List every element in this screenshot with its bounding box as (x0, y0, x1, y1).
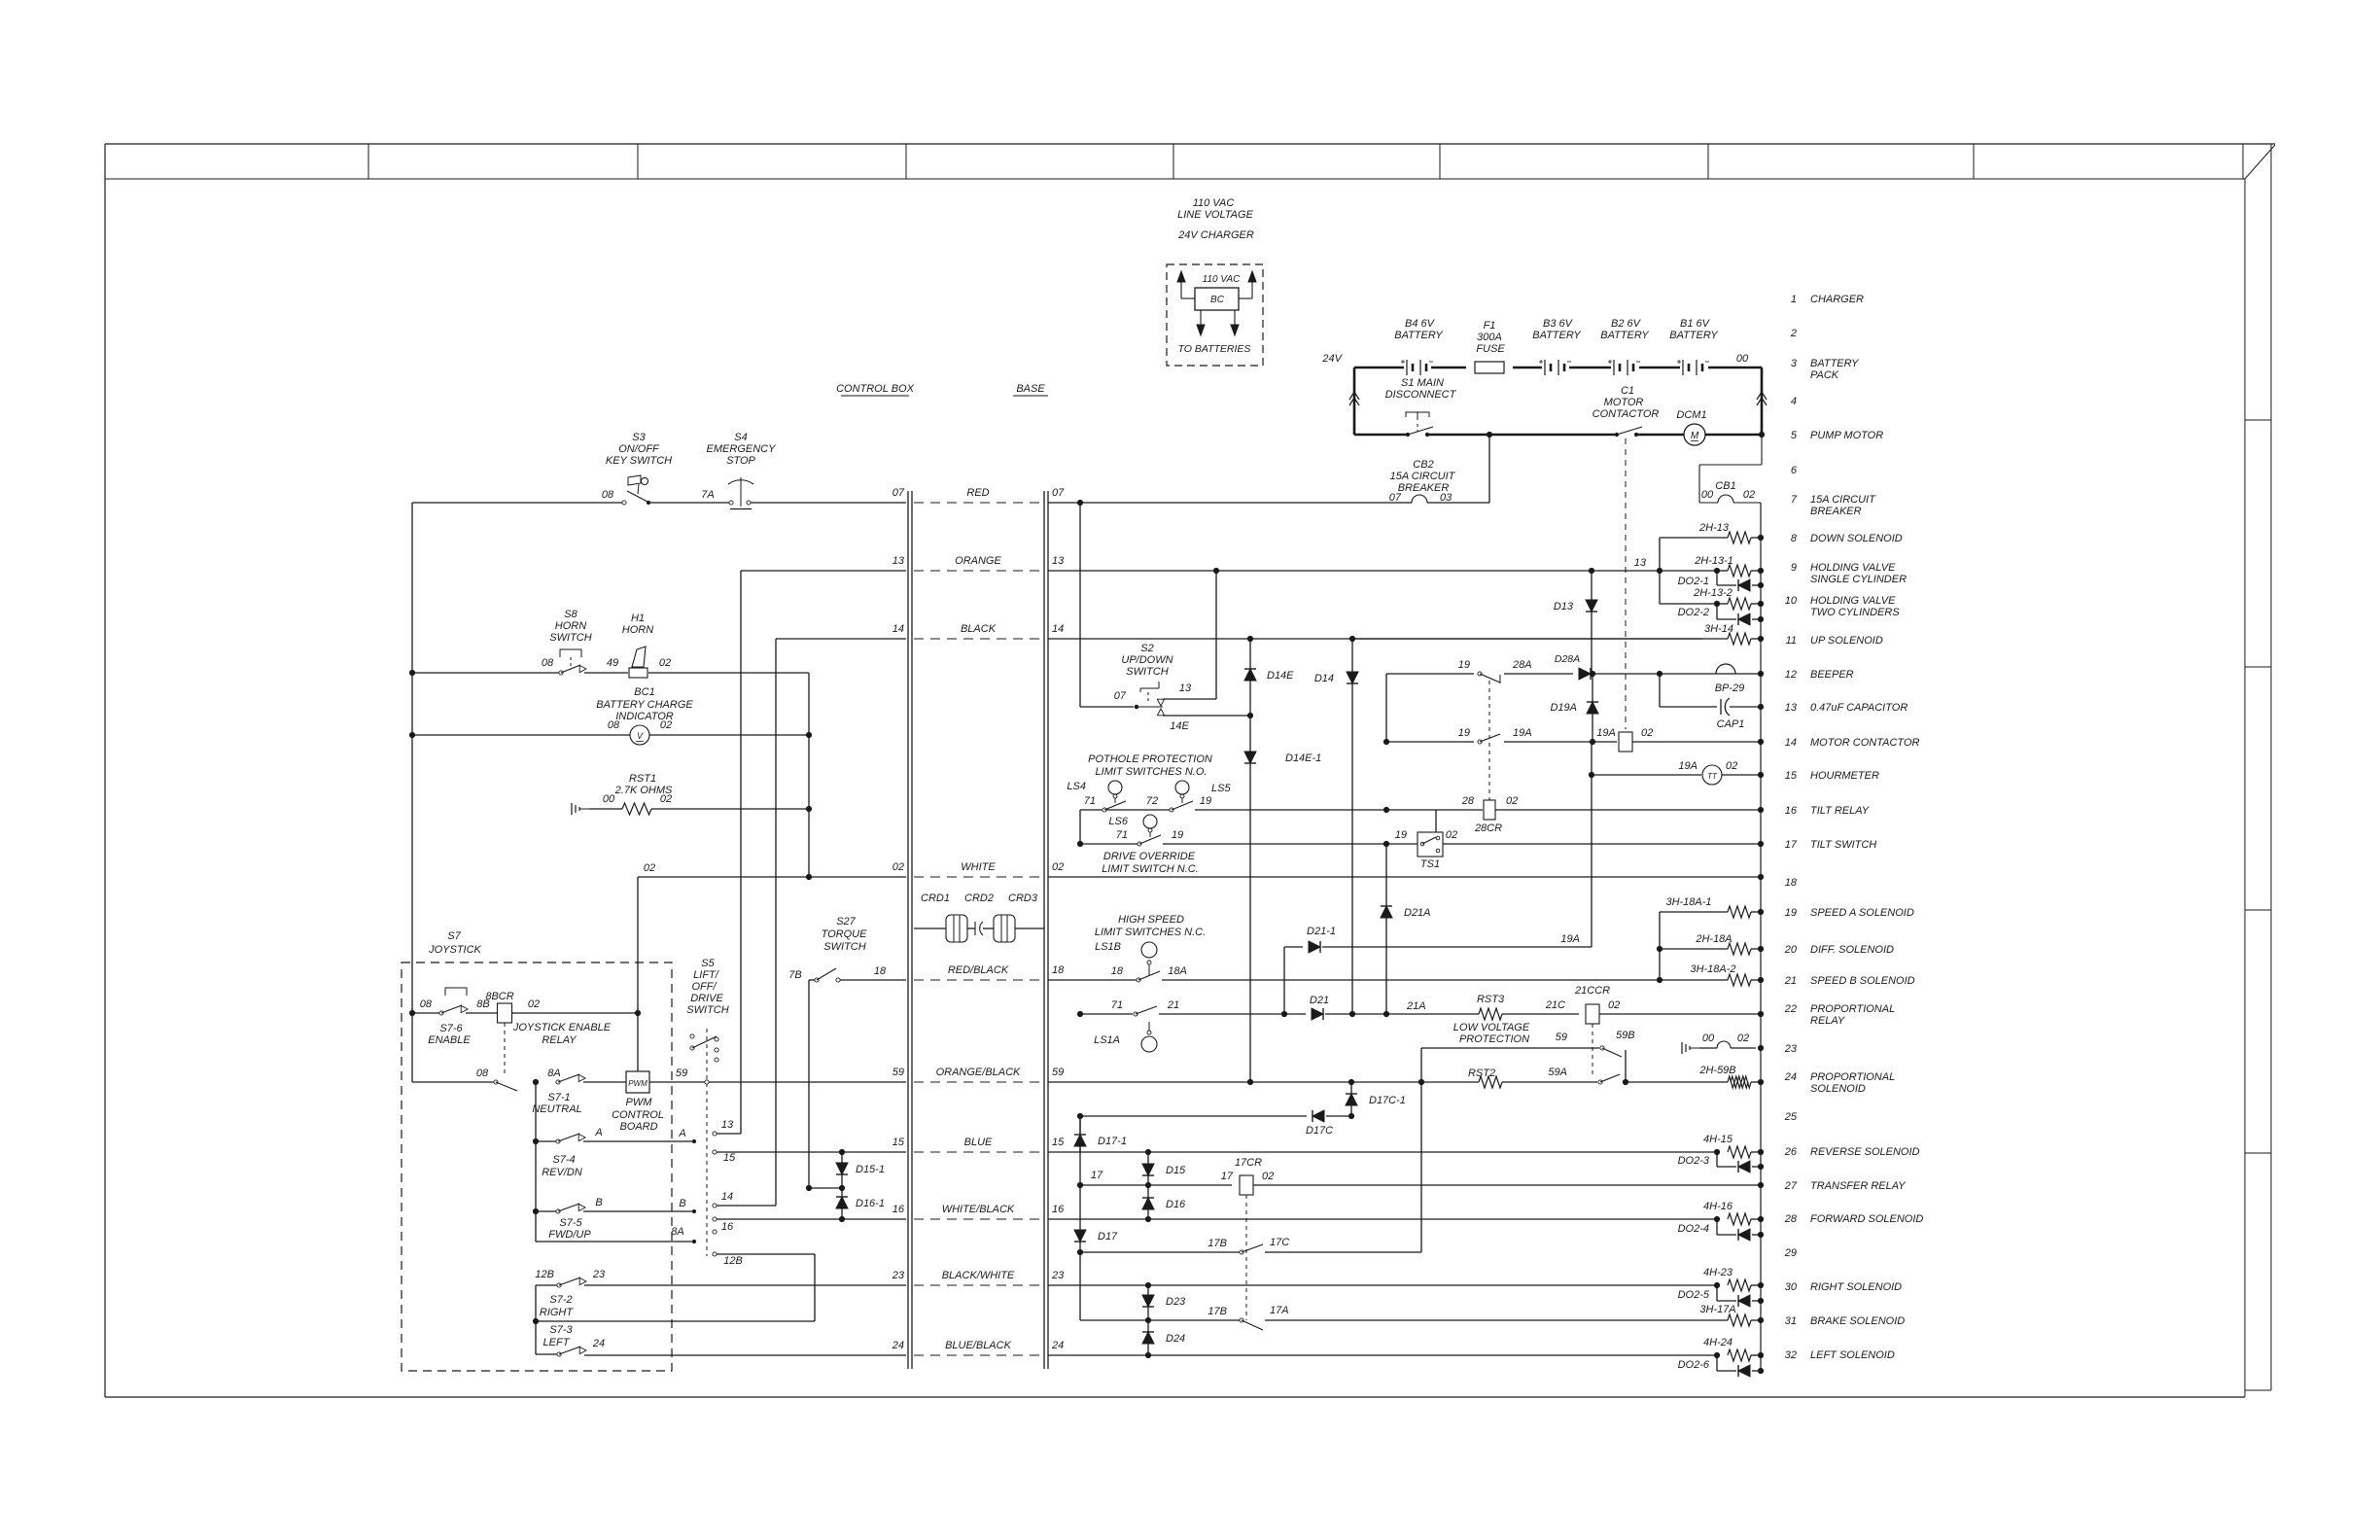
wire 18 left row (809, 980, 906, 1189)
limit switch LS5 (1146, 781, 1232, 812)
svg-text:LIMIT SWITCHES N.C.: LIMIT SWITCHES N.C. (1095, 927, 1206, 938)
svg-text:D17-1: D17-1 (1098, 1136, 1127, 1147)
svg-text:UP SOLENOID: UP SOLENOID (1810, 635, 1883, 647)
svg-text:D19A: D19A (1550, 702, 1577, 714)
svg-text:DOWN SOLENOID: DOWN SOLENOID (1810, 533, 1903, 544)
wire 02 WHITE inter-box dashed segment (892, 861, 1065, 877)
svg-text:11: 11 (1786, 635, 1797, 647)
svg-text:DO2-3: DO2-3 (1678, 1155, 1710, 1167)
svg-text:WHITE: WHITE (961, 861, 996, 873)
svg-text:00: 00 (1701, 489, 1714, 501)
svg-text:LOW VOLTAGE: LOW VOLTAGE (1453, 1022, 1530, 1033)
svg-text:24V: 24V (1321, 353, 1343, 365)
svg-text:13: 13 (1179, 682, 1192, 694)
junction 13 S2 (1213, 568, 1218, 573)
horn H1 (607, 612, 671, 678)
joystick common vertical (535, 1082, 537, 1242)
svg-text:18: 18 (1111, 965, 1124, 977)
svg-text:S8: S8 (564, 609, 577, 620)
low voltage bracket wire 59-59B (1421, 1030, 1635, 1082)
svg-text:PACK: PACK (1810, 369, 1839, 381)
svg-text:DRIVE: DRIVE (690, 993, 723, 1004)
diode D19A (1550, 674, 1598, 742)
svg-text:B: B (679, 1198, 685, 1209)
wire 59 from PWM (649, 1067, 906, 1082)
diode DO2-5 (1678, 1285, 1761, 1307)
svg-text:14: 14 (1785, 737, 1797, 749)
svg-text:BLACK: BLACK (961, 623, 997, 635)
svg-text:25: 25 (1784, 1111, 1798, 1123)
svg-text:B1 6V: B1 6V (1680, 318, 1711, 330)
svg-text:17: 17 (1091, 1170, 1103, 1181)
svg-text:NEUTRAL: NEUTRAL (532, 1103, 581, 1115)
diode DO2-2 (1678, 604, 1761, 625)
junction D21-1 branch (1281, 1011, 1286, 1016)
junction D24 bottom (1145, 1352, 1150, 1357)
svg-text:27: 27 (1784, 1180, 1798, 1192)
diode D14E-1 (1244, 716, 1321, 1082)
resistor 2H-18A (1728, 943, 1761, 955)
dashed link 8BCR to S7-1 (504, 1023, 506, 1075)
svg-text:19: 19 (1458, 659, 1470, 671)
charger block BC (1195, 288, 1239, 310)
svg-text:71: 71 (1116, 829, 1128, 841)
junction 7B drop bottom (806, 1185, 842, 1190)
svg-text:02: 02 (1052, 861, 1064, 873)
svg-text:18A: 18A (1168, 965, 1187, 977)
wire rung 20 diff solenoid (1657, 933, 1732, 952)
S5 contact aux (713, 1230, 717, 1234)
junction LS6 left (1077, 841, 1082, 846)
svg-text:23: 23 (892, 1270, 905, 1281)
svg-text:PWM: PWM (628, 1079, 647, 1088)
junction pothole right (1383, 807, 1388, 812)
svg-text:BATTERY: BATTERY (1600, 330, 1649, 341)
label 110 VAC LINE VOLTAGE (1177, 197, 1254, 221)
svg-text:S7-4: S7-4 (552, 1154, 575, 1166)
svg-text:BRAKE SOLENOID: BRAKE SOLENOID (1810, 1315, 1905, 1327)
wire 14 base side (1048, 638, 1702, 640)
svg-text:21A: 21A (1406, 1000, 1426, 1012)
dashed link 17CR contacts (1245, 1195, 1247, 1320)
svg-text:2H-13-2: 2H-13-2 (1693, 587, 1732, 599)
svg-text:D14E: D14E (1267, 670, 1294, 682)
fuse link 00-02 rung 23 (1699, 1032, 1756, 1048)
svg-text:02: 02 (1506, 795, 1518, 807)
svg-text:M: M (1691, 431, 1699, 441)
svg-text:S7-3: S7-3 (549, 1324, 573, 1336)
svg-text:00: 00 (1702, 1032, 1715, 1044)
svg-text:0.47uF CAPACITOR: 0.47uF CAPACITOR (1810, 702, 1907, 714)
joystick S7 dashed enclosure (402, 962, 672, 1371)
svg-text:00: 00 (603, 793, 615, 805)
svg-text:BP-29: BP-29 (1715, 682, 1745, 694)
junction D14E mid (1247, 713, 1252, 717)
wire 23 left row (584, 1284, 906, 1286)
svg-text:LEFT SOLENOID: LEFT SOLENOID (1810, 1349, 1895, 1361)
wire 16 WHITE/BLACK inter-box dashed segment (892, 1204, 1065, 1219)
svg-text:TT: TT (1707, 772, 1718, 781)
switch 59A contact (1502, 1067, 1620, 1084)
wire 15 BLUE inter-box dashed segment (892, 1137, 1065, 1152)
limit switch LS1B (1095, 941, 1187, 982)
svg-text:S1 MAIN: S1 MAIN (1401, 377, 1444, 389)
wire 07 base side (1048, 502, 1412, 504)
diode D17 (1074, 1185, 1118, 1252)
resistor RST3 (1477, 994, 1505, 1020)
coil C1 19A-02 (1596, 727, 1761, 752)
svg-text:PROPORTIONAL: PROPORTIONAL (1810, 1071, 1895, 1083)
node 02 corner (644, 862, 655, 874)
label 24V CHARGER (1177, 229, 1254, 241)
wire 16 base row (1048, 1218, 1717, 1220)
svg-text:59B: 59B (1616, 1030, 1635, 1041)
wire 18 base row (1048, 979, 1657, 981)
svg-text:TS1: TS1 (1420, 858, 1440, 870)
svg-text:S27: S27 (836, 916, 856, 927)
wire 8A row (536, 1226, 696, 1243)
svg-text:110 VAC: 110 VAC (1203, 274, 1242, 285)
svg-text:16: 16 (1052, 1204, 1065, 1215)
svg-text:SOLENOID: SOLENOID (1810, 1083, 1866, 1095)
svg-text:02: 02 (528, 998, 540, 1010)
arrow up on right battery wire (1757, 392, 1767, 405)
svg-text:LS1A: LS1A (1094, 1034, 1120, 1046)
page border outer frame (105, 144, 2275, 1397)
svg-text:7B: 7B (788, 969, 801, 981)
S5 contact 14 (713, 1191, 776, 1207)
svg-text:RIGHT: RIGHT (540, 1307, 575, 1318)
svg-text:17B: 17B (1207, 1238, 1227, 1249)
wire 18 RED/BLACK inter-box dashed segment (914, 964, 1065, 980)
connector CRD1 (921, 892, 967, 942)
wire 19A corner (1560, 933, 1580, 945)
svg-text:15: 15 (723, 1152, 736, 1164)
svg-text:REVERSE SOLENOID: REVERSE SOLENOID (1810, 1146, 1920, 1158)
wire rung 29 17B-17C (1077, 1082, 1421, 1255)
pwm control board box (612, 1071, 664, 1133)
wire 13 base side (1048, 570, 1657, 572)
svg-text:08: 08 (542, 657, 554, 669)
svg-text:8A: 8A (671, 1226, 683, 1238)
svg-text:10: 10 (1785, 595, 1798, 607)
junction node pump motor right (1759, 432, 1764, 437)
wire rung 14 motor contactor (1383, 739, 1474, 744)
svg-text:PWM: PWM (626, 1097, 653, 1108)
wire S7-6 row (412, 1012, 638, 1014)
svg-text:08: 08 (608, 719, 620, 731)
svg-text:1: 1 (1791, 294, 1797, 305)
svg-text:23: 23 (592, 1269, 606, 1280)
label HIGH SPEED LIMIT SWITCHES N.C. (1095, 914, 1206, 938)
wire rung 16 to bus (1495, 809, 1761, 811)
svg-text:02: 02 (1743, 489, 1755, 501)
svg-text:12B: 12B (535, 1269, 554, 1280)
wire 15 base row (1048, 1151, 1717, 1153)
diode D21A (1381, 844, 1431, 1014)
svg-text:PROTECTION: PROTECTION (1459, 1033, 1529, 1045)
svg-text:BATTERY: BATTERY (1810, 358, 1859, 369)
svg-text:BLUE: BLUE (964, 1137, 993, 1148)
svg-text:LS6: LS6 (1108, 816, 1128, 827)
svg-text:BATTERY: BATTERY (1394, 330, 1443, 341)
svg-text:MOTOR: MOTOR (1604, 397, 1644, 408)
svg-text:4H-16: 4H-16 (1703, 1201, 1733, 1212)
breaker CB2 15A CIRCUIT BREAKER (1389, 435, 1489, 504)
wire S2 to 13 (1163, 571, 1216, 699)
svg-text:UP/DOWN: UP/DOWN (1121, 654, 1172, 666)
wire 12B loop (533, 1252, 815, 1324)
pin 7A (701, 489, 714, 501)
diode D15 (1142, 1152, 1186, 1185)
svg-text:3H-18A-1: 3H-18A-1 (1665, 896, 1711, 908)
svg-text:D14: D14 (1314, 673, 1334, 684)
diode D14 (1314, 639, 1358, 1013)
resistor 3H-14 (1728, 633, 1761, 645)
wire battery pack top (thick) (1354, 367, 1762, 435)
svg-text:19: 19 (1458, 727, 1470, 739)
svg-text:4H-24: 4H-24 (1703, 1337, 1732, 1348)
wire 13 drop vertical (741, 571, 906, 1134)
rung 28 solenoid 4H-16 (1703, 1201, 1761, 1225)
svg-text:72: 72 (1146, 795, 1158, 807)
svg-text:2H-13: 2H-13 (1698, 522, 1730, 534)
wire 07 control box left (412, 502, 906, 504)
label CONTROL BOX (836, 383, 915, 396)
bus junction dots (1758, 535, 1763, 1373)
svg-text:24: 24 (1051, 1340, 1064, 1351)
svg-text:BREAKER: BREAKER (1810, 506, 1862, 517)
wire TS1 to 28CR (1435, 810, 1437, 832)
junction rung 22 left (1077, 1011, 1082, 1016)
svg-text:3H-17A: 3H-17A (1699, 1304, 1735, 1315)
svg-text:BOARD: BOARD (619, 1121, 657, 1133)
svg-text:15A CIRCUIT: 15A CIRCUIT (1390, 471, 1456, 482)
svg-text:V: V (637, 731, 644, 741)
label 110 VAC inside charger (1203, 274, 1242, 285)
wire S2 14E to D14E (1163, 715, 1250, 717)
svg-text:D28A: D28A (1555, 653, 1580, 665)
junction 59 D17C-1 (1348, 1079, 1353, 1084)
svg-text:59: 59 (1052, 1067, 1064, 1078)
svg-text:BEEPER: BEEPER (1810, 669, 1854, 681)
svg-text:02: 02 (644, 862, 655, 874)
svg-text:HOURMETER: HOURMETER (1810, 770, 1879, 782)
svg-text:LS5: LS5 (1211, 783, 1231, 794)
dashed link 28CR contacts (1488, 681, 1490, 800)
svg-text:15: 15 (892, 1137, 905, 1148)
junction D16 path (1145, 1182, 1150, 1187)
svg-text:D16: D16 (1166, 1199, 1186, 1210)
wire pump motor row (thick) (1354, 434, 1762, 437)
svg-text:18: 18 (874, 965, 887, 977)
rung 30 solenoid 4H-23 (1703, 1267, 1761, 1291)
wire horn drop vertical (808, 673, 810, 877)
svg-text:07: 07 (1052, 487, 1065, 499)
svg-text:DISCONNECT: DISCONNECT (1385, 389, 1457, 401)
svg-text:B2 6V: B2 6V (1611, 318, 1642, 330)
diode D16 (1142, 1185, 1186, 1219)
svg-text:13: 13 (1634, 557, 1647, 569)
svg-text:CRD2: CRD2 (964, 892, 994, 904)
svg-text:12: 12 (1785, 669, 1797, 681)
svg-text:OFF/: OFF/ (691, 981, 717, 993)
svg-text:5: 5 (1791, 430, 1798, 441)
svg-text:15: 15 (1785, 770, 1798, 782)
svg-text:D15-1: D15-1 (856, 1164, 885, 1175)
svg-text:S3: S3 (632, 432, 646, 443)
limit switch LS4 (1067, 781, 1126, 812)
svg-text:28A: 28A (1512, 659, 1532, 671)
rung 31 solenoid 3H-17A (1699, 1304, 1761, 1326)
svg-text:HORN: HORN (555, 620, 586, 632)
svg-text:71: 71 (1111, 999, 1123, 1011)
svg-text:8: 8 (1791, 533, 1798, 544)
junction BC1 left (409, 732, 414, 737)
svg-text:S7-6: S7-6 (439, 1023, 463, 1034)
svg-text:02: 02 (659, 657, 671, 669)
wire rung22 to D21 (1159, 1013, 1306, 1015)
ground chassis rung 23 (1682, 1042, 1699, 1054)
junction rung17 mid (1383, 841, 1388, 846)
svg-text:DIFF. SOLENOID: DIFF. SOLENOID (1810, 944, 1894, 956)
svg-text:02: 02 (1726, 760, 1737, 772)
junction D16 bottom (1145, 1216, 1150, 1221)
control box to base column 1 (908, 491, 912, 1369)
svg-text:D17: D17 (1098, 1231, 1118, 1242)
svg-text:13: 13 (1052, 555, 1065, 567)
svg-text:SWITCH: SWITCH (823, 941, 865, 953)
svg-text:HORN: HORN (622, 624, 653, 636)
label BASE (1013, 383, 1048, 396)
svg-text:16: 16 (721, 1221, 734, 1233)
right bus vertical (1760, 503, 1762, 1372)
svg-text:02: 02 (1446, 829, 1457, 841)
wire rung 17 tilt switch row (1080, 843, 1761, 845)
title strip dividers (368, 144, 2243, 179)
diode D14E (1244, 639, 1294, 716)
svg-text:KEY SWITCH: KEY SWITCH (606, 455, 672, 467)
wire RST1 row (589, 808, 809, 810)
svg-text:DO2-5: DO2-5 (1678, 1289, 1710, 1301)
label TO BATTERIES (1178, 343, 1251, 355)
wire rung 8 down solenoid (1660, 522, 1730, 571)
pin 8B (476, 998, 489, 1010)
svg-text:6: 6 (1791, 465, 1798, 476)
wire 16 white/black left (717, 1218, 906, 1220)
svg-text:14: 14 (892, 623, 904, 635)
svg-text:LEFT: LEFT (543, 1337, 571, 1348)
svg-text:15A CIRCUIT: 15A CIRCUIT (1810, 494, 1876, 506)
wire D17C row (1077, 1110, 1353, 1137)
svg-text:BLACK/WHITE: BLACK/WHITE (942, 1270, 1015, 1281)
meter BC1 BATTERY CHARGE INDICATOR (596, 686, 693, 745)
svg-text:S7: S7 (447, 930, 461, 942)
svg-text:FORWARD SOLENOID: FORWARD SOLENOID (1810, 1213, 1923, 1225)
switch S2 UP/DOWN SWITCH (1114, 643, 1192, 732)
wire S2 07 drop (1080, 503, 1134, 707)
battery B2 6V (1600, 318, 1649, 375)
svg-text:CB2: CB2 (1413, 459, 1433, 471)
svg-text:07: 07 (892, 487, 905, 499)
svg-text:D21A: D21A (1404, 907, 1431, 919)
svg-text:PUMP MOTOR: PUMP MOTOR (1810, 430, 1883, 441)
dashed link 21CCR to 59B switch (1592, 1024, 1593, 1077)
svg-text:B: B (595, 1197, 602, 1208)
svg-text:LIFT/: LIFT/ (693, 969, 719, 981)
relay coil 17CR (1221, 1157, 1761, 1195)
svg-text:RED/BLACK: RED/BLACK (948, 964, 1009, 976)
resistor RST1 2.7K OHMS (603, 773, 673, 815)
junction DO2-1 tap (1714, 568, 1719, 573)
svg-text:23: 23 (1051, 1270, 1065, 1281)
pin 08 key switch (602, 489, 614, 501)
svg-text:HIGH SPEED: HIGH SPEED (1118, 914, 1184, 926)
wire 15 blue left (713, 1150, 906, 1164)
switch S4 EMERGENCY STOP (707, 432, 777, 509)
svg-text:HOLDING VALVE: HOLDING VALVE (1810, 562, 1896, 574)
wire 13 ORANGE inter-box dashed segment (892, 555, 1065, 571)
svg-text:A: A (678, 1128, 685, 1139)
connector CRD3 (994, 892, 1038, 942)
svg-text:BC1: BC1 (634, 686, 654, 698)
wire 24 base row (1048, 1354, 1717, 1356)
diode D15-1 (836, 1149, 885, 1188)
svg-text:26: 26 (1784, 1146, 1798, 1158)
capacitor CAP1 (1717, 698, 1761, 730)
svg-text:300A: 300A (1477, 332, 1502, 343)
diode DO2-1 (1678, 571, 1761, 591)
wire rung 9 holding valve single (1660, 555, 1733, 571)
svg-text:D15: D15 (1166, 1165, 1186, 1176)
svg-text:19A: 19A (1678, 760, 1697, 772)
wire rung19 to bus (1751, 911, 1761, 913)
svg-text:31: 31 (1785, 1315, 1797, 1327)
diode D17-1 (1074, 1116, 1127, 1152)
svg-text:CONTROL BOX: CONTROL BOX (836, 383, 915, 395)
wire 19A drop from hourmeter (1591, 742, 1592, 947)
svg-text:TO BATTERIES: TO BATTERIES (1178, 343, 1251, 355)
switch S1 MAIN DISCONNECT (1385, 377, 1457, 437)
label LOW VOLTAGE PROTECTION (1453, 1022, 1530, 1045)
wire rung 19 speed A (1660, 896, 1728, 912)
svg-text:02: 02 (1641, 727, 1653, 739)
wire 24 left row (584, 1354, 906, 1356)
wire 14 BLACK inter-box dashed segment (892, 623, 1065, 639)
svg-text:15: 15 (1052, 1137, 1065, 1148)
svg-text:7A: 7A (701, 489, 714, 501)
svg-text:02: 02 (892, 861, 904, 873)
resistor RST2 (1468, 1067, 1502, 1088)
battery B3 6V (1532, 318, 1581, 375)
svg-text:02: 02 (660, 793, 672, 805)
wire rung 31 17B-17A brake (1080, 1305, 1728, 1330)
svg-text:29: 29 (1784, 1247, 1797, 1259)
svg-text:24: 24 (1784, 1071, 1797, 1083)
junction 8A node (533, 1067, 560, 1085)
ground at RST1 (572, 803, 589, 815)
junction 18A riser (1657, 977, 1662, 982)
svg-text:D21: D21 (1310, 995, 1329, 1006)
wire 59 ORANGE/BLACK inter-box dashed segment (892, 1067, 1065, 1082)
battery charger BC dashed box (1167, 264, 1263, 366)
svg-text:EMERGENCY: EMERGENCY (707, 443, 777, 455)
dashed link 28CR relay contacts vertical (1488, 681, 1490, 736)
diode D17C-1 (1346, 1082, 1406, 1116)
svg-text:SWITCH: SWITCH (1126, 666, 1168, 678)
svg-text:CHARGER: CHARGER (1810, 294, 1864, 305)
junction D19A bottom (1590, 739, 1594, 744)
